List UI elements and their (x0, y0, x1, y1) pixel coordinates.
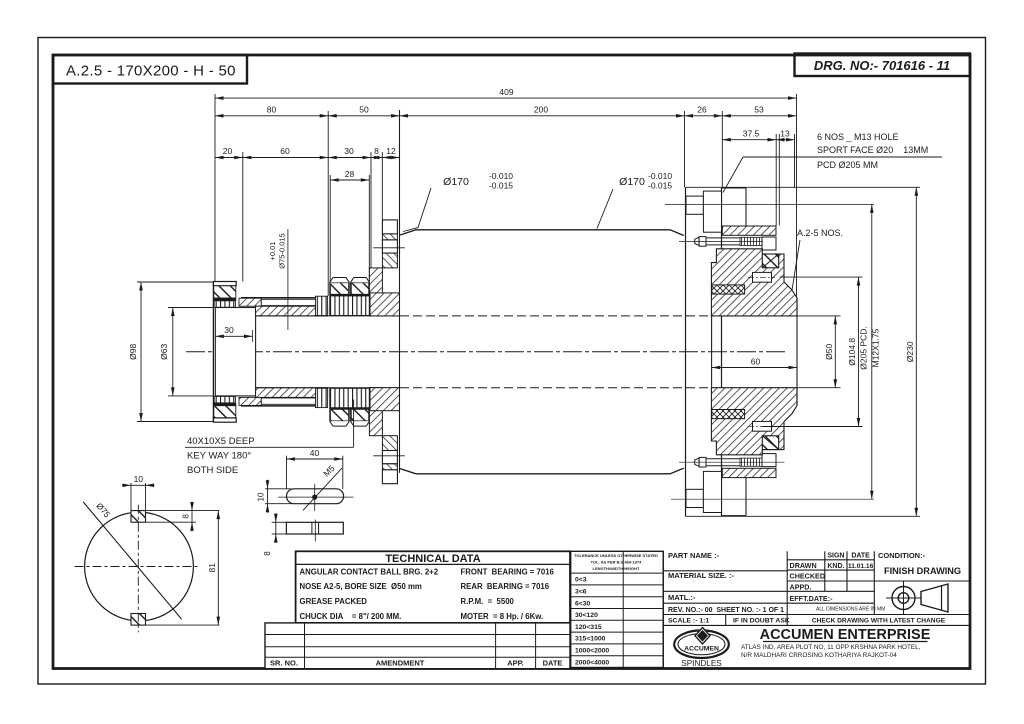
key m5 leader (303, 468, 342, 510)
svg-text:409: 409 (499, 87, 513, 97)
front cap body bottom (369, 388, 382, 436)
front cap hatch mid bottom (382, 436, 397, 451)
svg-text:-0.010: -0.010 (648, 171, 672, 181)
dim dia63 (168, 307, 213, 309)
svg-text:REV. NO.:- 00 SHEET NO. :- 1: REV. NO.:- 00 SHEET NO. :- 1 OF 1 (668, 607, 784, 614)
tolerance table (571, 551, 664, 667)
svg-text:6<30: 6<30 (575, 600, 591, 607)
rear cover disk (685, 187, 687, 516)
svg-text:PCD Ø205 MM: PCD Ø205 MM (817, 160, 878, 170)
svg-text:10: 10 (134, 474, 144, 484)
svg-text:Ø104.8: Ø104.8 (847, 338, 857, 366)
svg-text:KEY WAY 180°: KEY WAY 180° (187, 451, 251, 462)
svg-text:81: 81 (207, 563, 217, 573)
svg-text:0<3: 0<3 (575, 577, 587, 584)
svg-text:40: 40 (310, 448, 320, 458)
front bearing bottom block 1 (330, 409, 349, 426)
svg-text:Ø50: Ø50 (824, 344, 834, 360)
svg-text:BOTH SIDE: BOTH SIDE (187, 465, 238, 476)
front sleeve hatch bottom (256, 388, 328, 398)
bore line bottom (256, 387, 400, 389)
svg-text:ALL DIMENSIONS ARE IN MM: ALL DIMENSIONS ARE IN MM (816, 606, 885, 612)
svg-text:13: 13 (780, 129, 790, 139)
svg-text:DRAWN: DRAWN (790, 561, 817, 570)
svg-text:EFFT.DATE:-: EFFT.DATE:- (790, 594, 834, 603)
svg-text:SPINDLES: SPINDLES (681, 659, 722, 668)
svg-text:A.2.5 - 170X200 - H - 50: A.2.5 - 170X200 - H - 50 (66, 63, 236, 80)
svg-text:2000<4000: 2000<4000 (575, 659, 609, 666)
dim 409 (215, 97, 797, 99)
front sleeve hatch top (256, 306, 328, 316)
rear bearing square top (762, 254, 778, 268)
dim 28 (330, 179, 369, 181)
dim 200 (400, 115, 685, 117)
title block grid (662, 551, 664, 668)
svg-text:MATL.:-: MATL.:- (668, 593, 696, 602)
svg-text:TOL. AS PER B.S.469-1974: TOL. AS PER B.S.469-1974 (591, 560, 642, 565)
dim 20 (215, 157, 243, 159)
housing bottom line (400, 468, 684, 474)
front cap flange hatch top (382, 234, 397, 240)
rear housing mass bottom (711, 388, 797, 455)
key dim 10 (265, 488, 291, 490)
svg-text:GREASE PACKED: GREASE PACKED (300, 597, 368, 606)
svg-text:60: 60 (751, 357, 761, 367)
key dim 8 (272, 521, 287, 523)
svg-text:Ø63: Ø63 (159, 344, 169, 360)
svg-text:8: 8 (263, 551, 272, 556)
dim dia104.8 (780, 276, 863, 278)
key side view (286, 522, 343, 534)
rear housing mass top (711, 249, 797, 316)
front bearing thick seat top (330, 294, 370, 296)
dim 60 top (243, 157, 328, 159)
rear hub right face (796, 298, 798, 406)
rear stud hole bottom (753, 421, 772, 431)
svg-text:1000<2000: 1000<2000 (575, 648, 609, 655)
front spacer thick line top (241, 297, 328, 299)
front bearing stripes bottom (330, 388, 370, 408)
detail circle dia75 (85, 512, 194, 621)
dim 80 (215, 115, 328, 117)
svg-text:ATLAS IND, AREA PLOT NO, 11 OP: ATLAS IND, AREA PLOT NO, 11 OPP KRSHNA P… (741, 644, 921, 651)
svg-text:-0.015: -0.015 (648, 181, 672, 191)
svg-text:60: 60 (280, 146, 290, 156)
dim 30 inside shaft (215, 335, 252, 337)
svg-text:11.01.16: 11.01.16 (848, 563, 874, 570)
front cap body top (369, 268, 382, 316)
svg-text:APPD.: APPD. (790, 582, 812, 591)
nose collar top (213, 282, 236, 286)
svg-text:30: 30 (224, 325, 234, 335)
front spacer thick line bottom (241, 405, 328, 407)
key top view (287, 489, 344, 504)
rear hub left face (711, 316, 713, 388)
detail dim 10 (130, 483, 132, 511)
dim 12 (382, 157, 399, 159)
svg-text:6 NOS _ M13 HOLE: 6 NOS _ M13 HOLE (817, 132, 899, 142)
front bearing top block 1 (330, 278, 349, 295)
front cap screw head top (382, 220, 397, 234)
detail line bottom (146, 624, 220, 626)
svg-text:FINISH DRAWING: FINISH DRAWING (884, 566, 961, 576)
front spacer channel bottom (261, 398, 321, 404)
svg-text:CHECK DRAWING WITH LATEST CHAN: CHECK DRAWING WITH LATEST CHANGE (812, 618, 946, 625)
svg-text:MOTER = 8 Hp. / 6Kw.: MOTER = 8 Hp. / 6Kw. (461, 612, 544, 621)
key dim 40 (286, 456, 288, 489)
front bearing stripes top (330, 296, 370, 316)
svg-text:28: 28 (345, 169, 355, 179)
dim 13 (776, 139, 795, 141)
svg-text:ACCUMEN ENTERPRISE: ACCUMEN ENTERPRISE (760, 627, 931, 643)
svg-text:Ø170: Ø170 (443, 176, 469, 188)
svg-text:ACCUMEN: ACCUMEN (684, 646, 719, 653)
rear bearing square bottom (762, 436, 778, 450)
front spacer channel top (261, 299, 321, 305)
svg-text:CONDITION:-: CONDITION:- (878, 551, 926, 560)
dim 30 top (328, 157, 371, 159)
dim dia98 (137, 281, 213, 283)
svg-text:N/R MALDHARI CRROSING KOTHARIY: N/R MALDHARI CRROSING KOTHARIYA RAJKOT-0… (741, 652, 897, 659)
housing top line (400, 230, 684, 236)
svg-text:-0.015: -0.015 (489, 181, 513, 191)
svg-text:12: 12 (386, 146, 396, 156)
svg-text:8: 8 (374, 146, 379, 156)
svg-text:M12X1.75: M12X1.75 (871, 328, 881, 367)
svg-text:APP.: APP. (507, 659, 524, 668)
nose face line (212, 282, 214, 422)
M13 hole centerline bottom (671, 498, 874, 500)
M13 hole centerline top (665, 203, 874, 205)
front bearing thick seat bottom (330, 407, 370, 409)
technical data table (296, 551, 570, 623)
svg-text:40X10X5 DEEP: 40X10X5 DEEP (187, 436, 255, 447)
detail horizontal centerline (75, 566, 200, 568)
front bearing bottom block 2 (351, 409, 370, 426)
svg-text:Ø230: Ø230 (905, 341, 915, 362)
svg-text:10: 10 (257, 492, 266, 501)
dia230 ext top (686, 186, 921, 188)
front cap screw hole bottom (382, 451, 397, 464)
front cap flange hatch bottom (382, 464, 397, 470)
svg-text:FRONT BEARING = 7016: FRONT BEARING = 7016 (461, 567, 555, 576)
projection symbol (892, 587, 915, 610)
svg-text:R.P.M. = 5500: R.P.M. = 5500 (461, 597, 515, 606)
svg-text:3<6: 3<6 (575, 589, 587, 596)
svg-text:Ø205 PCD.: Ø205 PCD. (859, 326, 869, 369)
dim dia50 (797, 315, 841, 317)
dim dia230 (915, 187, 917, 516)
drg no box (795, 54, 971, 77)
svg-text:Ø75-0.015: Ø75-0.015 (278, 233, 287, 268)
housing front face (399, 110, 401, 473)
svg-text:A.2-5 NOS.: A.2-5 NOS. (797, 228, 843, 238)
svg-text:DATE: DATE (851, 552, 870, 559)
svg-text:30<120: 30<120 (575, 612, 598, 619)
rear spacer crosshatch top (712, 285, 745, 294)
svg-text:IF IN DOUBT ASK: IF IN DOUBT ASK (733, 618, 790, 625)
svg-text:DRG. NO:- 701616 - 11: DRG. NO:- 701616 - 11 (814, 58, 950, 73)
svg-text:REAR BEARING = 7016: REAR BEARING = 7016 (461, 582, 550, 591)
svg-text:MATERIAL SIZE. :-: MATERIAL SIZE. :- (668, 571, 734, 580)
svg-text:SR. NO.: SR. NO. (270, 659, 298, 668)
svg-text:SIGN: SIGN (827, 552, 844, 559)
svg-text:26: 26 (697, 105, 707, 115)
svg-text:DATE: DATE (543, 659, 563, 668)
front cap screw hole top (382, 240, 397, 253)
dim 50 (328, 115, 399, 117)
detail keyway bottom (131, 614, 146, 626)
front spacer hatch top (239, 298, 261, 306)
nose shaft dia63 (215, 308, 255, 396)
svg-text:ANGULAR CONTACT BALL BRG. 2+2: ANGULAR CONTACT BALL BRG. 2+2 (300, 567, 439, 576)
svg-text:50: 50 (359, 105, 369, 115)
inner border (53, 55, 970, 669)
detail diagonal dia75 (83, 502, 182, 619)
detail line top (131, 510, 219, 512)
svg-text:PART NAME :-: PART NAME :- (668, 551, 720, 560)
svg-text:80: 80 (267, 105, 277, 115)
detail vertical centerline (137, 505, 139, 633)
bore line top (256, 315, 400, 317)
M13 boss top (686, 196, 703, 214)
svg-text:TECHNICAL DATA: TECHNICAL DATA (385, 553, 480, 565)
rear stud top (695, 237, 699, 245)
svg-text:AMENDMENT: AMENDMENT (376, 659, 425, 668)
dim 60 rear (712, 367, 797, 369)
svg-text:30: 30 (344, 146, 354, 156)
svg-text:315<1000: 315<1000 (575, 636, 606, 643)
svg-text:CHUCK DIA = 8"/ 200 MM.: CHUCK DIA = 8"/ 200 MM. (300, 612, 402, 621)
svg-text:53: 53 (754, 105, 764, 115)
rear spacer crosshatch bottom (712, 410, 745, 419)
rear stud bottom (695, 458, 699, 466)
svg-text:+0.01: +0.01 (268, 242, 277, 261)
dim 26 (685, 115, 723, 117)
front cap hatch mid top (382, 253, 397, 268)
front cap screw head bottom (382, 470, 397, 484)
amendment table (265, 623, 570, 669)
extension lines top (214, 94, 216, 282)
front spacer hatch bottom (239, 397, 261, 405)
rear flange right face (745, 188, 747, 226)
detail dim 81 (217, 511, 219, 625)
title box A.2.5-170X200-H-50 (53, 55, 247, 84)
dim 37.5 (722, 139, 776, 141)
rear stud hole top (753, 272, 772, 282)
dim 8 top (371, 157, 382, 159)
svg-text:NOSE A2-5, BORE SIZE Ø50 mm: NOSE A2-5, BORE SIZE Ø50 mm (300, 582, 422, 591)
front bearing top block 2 (351, 278, 370, 295)
svg-text:CHECKED: CHECKED (790, 572, 826, 581)
nose collar bottom (214, 396, 235, 403)
svg-text:120<315: 120<315 (575, 624, 602, 631)
dim dia205 pcd (871, 204, 873, 499)
main centerline (186, 351, 788, 353)
svg-text:-0.010: -0.010 (489, 171, 513, 181)
svg-text:37.5: 37.5 (743, 129, 760, 139)
detail dim 8 (146, 521, 197, 523)
dia230 ext bottom (686, 515, 921, 517)
svg-text:KND.: KND. (827, 563, 844, 570)
rear cover band hatch top (722, 226, 776, 235)
svg-text:SCALE :- 1:1: SCALE :- 1:1 (668, 618, 709, 625)
svg-text:SPORT FACE Ø20 13MM: SPORT FACE Ø20 13MM (817, 145, 928, 155)
svg-text:Ø98: Ø98 (128, 344, 138, 360)
front cap inner hatch bottom (370, 388, 400, 411)
svg-text:Ø170: Ø170 (619, 176, 645, 188)
detail keyway top (131, 511, 146, 523)
svg-text:200: 200 (534, 105, 548, 115)
M13 boss bottom (686, 489, 703, 507)
rear cover band hatch bottom (722, 468, 776, 477)
key center mark (312, 495, 317, 500)
accumen logo (674, 630, 729, 658)
svg-text:8: 8 (182, 514, 191, 519)
front lock stripes left (316, 296, 328, 315)
front cap inner hatch top (370, 293, 400, 316)
svg-text:20: 20 (223, 146, 233, 156)
svg-text:LENGTH/WIDTH/HEIGHT: LENGTH/WIDTH/HEIGHT (593, 566, 640, 571)
dim 53 (722, 115, 796, 117)
svg-text:TOLERANCE UNLESS OTHERWISE STA: TOLERANCE UNLESS OTHERWISE STATED (574, 553, 658, 558)
